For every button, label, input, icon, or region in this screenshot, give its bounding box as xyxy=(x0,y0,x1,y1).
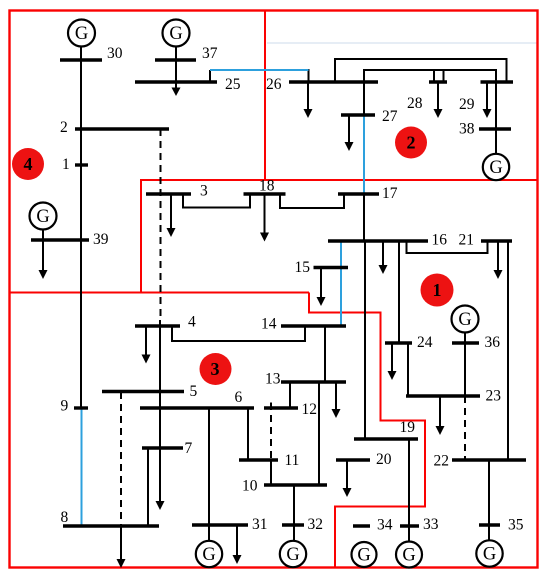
svg-text:13: 13 xyxy=(265,371,281,388)
svg-text:3: 3 xyxy=(200,183,208,200)
svg-text:11: 11 xyxy=(285,452,300,469)
svg-text:9: 9 xyxy=(61,398,69,415)
svg-text:G: G xyxy=(458,310,471,330)
svg-text:G: G xyxy=(483,545,496,565)
svg-text:10: 10 xyxy=(242,478,258,495)
svg-text:39: 39 xyxy=(93,231,109,248)
svg-text:G: G xyxy=(36,207,49,227)
svg-text:14: 14 xyxy=(261,316,277,333)
svg-text:36: 36 xyxy=(485,334,501,351)
svg-text:G: G xyxy=(202,545,215,565)
svg-text:G: G xyxy=(75,24,88,44)
svg-text:G: G xyxy=(489,158,502,178)
svg-text:17: 17 xyxy=(382,185,398,202)
svg-text:21: 21 xyxy=(459,232,475,249)
svg-text:1: 1 xyxy=(62,156,70,173)
svg-text:G: G xyxy=(357,546,370,566)
svg-text:G: G xyxy=(286,545,299,565)
svg-text:27: 27 xyxy=(382,108,398,125)
svg-text:33: 33 xyxy=(423,516,439,533)
svg-text:22: 22 xyxy=(434,453,450,470)
svg-text:15: 15 xyxy=(295,259,311,276)
svg-text:29: 29 xyxy=(459,96,475,113)
svg-text:18: 18 xyxy=(259,178,275,195)
svg-text:19: 19 xyxy=(400,419,416,436)
svg-text:25: 25 xyxy=(225,76,241,93)
svg-text:G: G xyxy=(169,24,182,44)
svg-text:3: 3 xyxy=(211,359,220,379)
svg-text:28: 28 xyxy=(407,95,423,112)
svg-text:32: 32 xyxy=(308,516,324,533)
svg-text:2: 2 xyxy=(407,133,416,153)
svg-text:31: 31 xyxy=(252,516,268,533)
svg-text:24: 24 xyxy=(417,334,433,351)
svg-text:6: 6 xyxy=(235,389,243,406)
svg-text:37: 37 xyxy=(202,45,218,62)
svg-text:7: 7 xyxy=(185,440,193,457)
svg-text:38: 38 xyxy=(459,121,475,138)
svg-text:5: 5 xyxy=(190,383,198,400)
svg-text:1: 1 xyxy=(433,280,442,300)
svg-text:4: 4 xyxy=(24,154,33,174)
svg-text:8: 8 xyxy=(61,509,69,526)
svg-text:26: 26 xyxy=(266,76,282,93)
svg-text:4: 4 xyxy=(188,314,196,331)
svg-text:G: G xyxy=(402,546,415,566)
svg-text:2: 2 xyxy=(60,119,68,136)
svg-text:20: 20 xyxy=(376,451,392,468)
svg-text:35: 35 xyxy=(508,517,524,534)
svg-text:30: 30 xyxy=(107,45,123,62)
svg-text:34: 34 xyxy=(377,517,393,534)
svg-text:23: 23 xyxy=(486,388,502,405)
svg-text:16: 16 xyxy=(432,232,448,249)
svg-text:12: 12 xyxy=(302,401,318,418)
